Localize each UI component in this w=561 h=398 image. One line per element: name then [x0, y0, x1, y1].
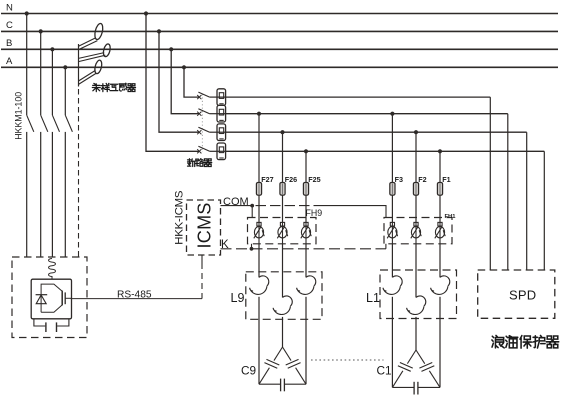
- wire N drop lower: [26, 132, 28, 257]
- branch wire upper: [282, 132, 284, 182]
- reactor wire: [258, 270, 260, 277]
- wire down to SPD: [526, 132, 528, 270]
- wire down to SPD: [507, 114, 509, 270]
- CT T2 secondary pair: [79, 53, 105, 59]
- svg-text:C9: C9: [241, 364, 256, 378]
- svg-text:F1: F1: [442, 175, 450, 184]
- svg-text:SPD: SPD: [509, 287, 536, 302]
- fuse F2: [413, 183, 418, 196]
- branch tap node: [438, 149, 442, 153]
- breaker pole 2 stub wire: [210, 113, 217, 115]
- wire below fuse F27: [258, 195, 260, 222]
- wire below fuse F3: [391, 195, 393, 222]
- breaker pole 3 contact X: [197, 130, 201, 134]
- branch wire to reactor: [258, 244, 260, 270]
- reactor wire: [391, 270, 393, 277]
- capacitor leg wire: [416, 350, 425, 364]
- wire B drop upper: [51, 49, 53, 115]
- breaker pole 1 body: [217, 89, 226, 106]
- wire through contactor: [415, 222, 417, 244]
- wire through contactor: [258, 222, 260, 244]
- controller bottom stub: [201, 255, 203, 263]
- K node: [250, 247, 254, 251]
- breaker pole 1 wire through: [217, 96, 226, 98]
- branch wire to reactor: [282, 244, 284, 270]
- breaker pole 4 contact X: [197, 149, 201, 153]
- svg-text:HKK-ICMS: HKK-ICMS: [174, 190, 186, 245]
- breaker pole 1 blade: [198, 92, 209, 97]
- wire N drop upper: [26, 14, 28, 116]
- sampling signal dashed wire: [78, 89, 80, 257]
- CT T3 toroid: [94, 59, 103, 74]
- wire down to SPD: [489, 97, 491, 270]
- wire A drop lower: [64, 132, 66, 257]
- branch wire upper: [391, 114, 393, 183]
- wire C drop upper: [40, 31, 42, 115]
- fuse F25: [303, 183, 308, 196]
- capacitor leg wire: [274, 347, 283, 361]
- branch wire to reactor: [391, 244, 393, 270]
- wire through contactor: [305, 222, 307, 244]
- capacitor plates: [286, 359, 299, 365]
- wire through contactor: [391, 222, 393, 244]
- bus tap node: [157, 29, 161, 33]
- reactor winding: [259, 276, 269, 286]
- dotted continuation C9 to C1: [311, 359, 384, 361]
- CT T1 secondary pair: [79, 38, 96, 46]
- APF module dashed box: [12, 257, 87, 338]
- svg-text:ICMS: ICMS: [195, 202, 215, 248]
- wire below fuse F1: [439, 195, 441, 222]
- capacitor leg wire: [283, 347, 292, 361]
- bus line B: [1, 48, 558, 50]
- breaker pole 3 wire through: [217, 131, 226, 133]
- contactor switch element: [301, 222, 311, 238]
- diode D1 triangle: [36, 295, 46, 304]
- bus tap node: [182, 65, 186, 69]
- wire drop to breaker: [184, 67, 199, 97]
- contactor switch element: [277, 222, 287, 238]
- IGBT body bar: [61, 291, 63, 306]
- breaker pole 1 contact X: [197, 95, 201, 99]
- inverter inner box: [31, 279, 71, 319]
- label langyong-baohuqi (surge protector): [492, 335, 504, 347]
- switch blade HKKM1-100 pole 2: [41, 115, 48, 132]
- wire through contactor: [439, 222, 441, 244]
- svg-text:HKKM1-100: HKKM1-100: [14, 92, 24, 140]
- COM dashed continuation: [256, 205, 321, 207]
- wire drop to breaker: [159, 31, 199, 132]
- node B tap (left feeder): [50, 47, 54, 51]
- bus line N: [1, 13, 558, 15]
- fuse F27: [256, 183, 261, 196]
- DC link capacitor right bracket: [57, 319, 69, 326]
- branch wire upper: [439, 151, 441, 182]
- feeder line after breaker: [226, 150, 544, 152]
- switch blade HKKM1-100 pole 3: [52, 115, 59, 132]
- COM node: [250, 204, 254, 208]
- node C tap (left feeder): [39, 29, 43, 33]
- branch wire upper: [305, 151, 307, 182]
- svg-text:L9: L9: [231, 291, 245, 305]
- wire B drop lower: [51, 132, 53, 257]
- bus tap node: [169, 47, 173, 51]
- svg-text:F26: F26: [285, 175, 297, 184]
- branch tap node: [304, 149, 308, 153]
- controller link dashed: [201, 263, 203, 299]
- diode D1 bar: [36, 294, 48, 296]
- capacitor plates: [419, 363, 432, 369]
- reactor L9 box: [246, 272, 322, 320]
- svg-text:A: A: [6, 56, 13, 67]
- bus line C: [1, 30, 558, 32]
- breaker pole 3 stub wire: [210, 131, 217, 133]
- COM stub to FH9 box: [251, 206, 253, 218]
- svg-text:C: C: [6, 20, 13, 31]
- breaker pole 4 stub wire: [210, 150, 217, 152]
- node A tap (left feeder): [63, 65, 67, 69]
- capacitor bottom plates: [280, 379, 282, 392]
- switch blade HKKM1-100 pole 1: [27, 115, 34, 132]
- bus tap node: [144, 11, 148, 15]
- reactor wire: [415, 270, 417, 298]
- IGBT gate bar: [64, 292, 66, 304]
- K stub to FH9 box: [251, 244, 253, 249]
- wire below fuse F25: [305, 195, 307, 222]
- inductor squiggle: [49, 259, 56, 280]
- IGBT gate wire: [65, 297, 71, 299]
- branch wire upper: [258, 114, 260, 183]
- breaker pole 3 body: [217, 124, 226, 141]
- svg-text:RS-485: RS-485: [117, 290, 152, 301]
- wire down to SPD: [543, 151, 545, 270]
- DC link capacitor plates: [45, 322, 47, 332]
- capacitor leg wire: [407, 350, 416, 364]
- branch wire upper: [415, 132, 417, 182]
- svg-text:F27: F27: [261, 175, 273, 184]
- CT T2 toroid: [102, 43, 111, 57]
- wire below fuse F26: [282, 195, 284, 222]
- CT T1 toroid: [93, 23, 104, 41]
- wires to capacitor C9: [258, 297, 260, 384]
- reactor winding: [283, 296, 293, 306]
- capacitor bottom leg: [392, 386, 414, 388]
- feeder line after breaker: [226, 131, 527, 133]
- branch wire to reactor: [415, 244, 417, 270]
- breaker pole 4 blade: [198, 146, 209, 151]
- branch tap node: [280, 130, 284, 134]
- breaker pole 2 body: [217, 105, 226, 122]
- DC link capacitor left bracket: [34, 319, 45, 326]
- breaker pole 1 stub wire: [210, 96, 217, 98]
- node N tap (left feeder): [25, 11, 29, 15]
- breaker pole 3 blade: [198, 127, 209, 132]
- branch wire to reactor: [439, 244, 441, 270]
- wire below fuse F2: [415, 195, 417, 222]
- branch wire to reactor: [305, 244, 307, 270]
- wire A drop upper: [64, 67, 66, 115]
- K wire dashed: [221, 248, 387, 250]
- reactor wire: [439, 270, 441, 277]
- capacitor plates: [266, 359, 279, 365]
- wires to capacitor C1: [391, 297, 393, 388]
- reactor wire: [282, 270, 284, 298]
- wire drop to breaker: [171, 49, 199, 113]
- CT T3 secondary pair: [79, 70, 96, 81]
- svg-text:F3: F3: [395, 175, 403, 184]
- label duanluqi (circuit breaker): [188, 159, 196, 167]
- breaker pole 4 body: [217, 143, 226, 160]
- capacitor plates: [400, 363, 413, 369]
- svg-text:F2: F2: [418, 175, 426, 184]
- reactor winding: [306, 276, 316, 286]
- breaker pole 2 blade: [198, 109, 209, 114]
- feeder line after breaker: [226, 96, 490, 98]
- switch blade HKKM1-100 pole 4: [65, 115, 72, 132]
- fuse F26: [280, 183, 285, 196]
- feeder line after breaker: [226, 113, 508, 115]
- svg-text:FH9: FH9: [306, 208, 323, 218]
- K stub to FH1 box: [385, 244, 387, 249]
- fuse F1: [437, 183, 442, 196]
- controller HKK-ICMS box: [187, 200, 221, 255]
- wire C drop lower: [40, 132, 42, 257]
- contactor switch element: [387, 222, 397, 238]
- label caiyang-hugangqi (sampling transformer): [92, 83, 100, 91]
- CT secondary collection wire: [78, 44, 80, 87]
- branch tap node: [257, 112, 261, 116]
- svg-text:FH1: FH1: [445, 214, 457, 220]
- reactor L1 box: [380, 270, 457, 319]
- breaker pole 2 contact X: [197, 112, 201, 116]
- reactor winding: [392, 276, 402, 286]
- inverter loop wire: [41, 284, 62, 312]
- COM wire to FH1 box: [320, 206, 386, 218]
- contactor group FH1 box: [384, 218, 452, 244]
- branch tap node: [390, 112, 394, 116]
- wire drop to breaker: [146, 14, 199, 152]
- breaker pole 4 wire through: [217, 150, 226, 152]
- contactor group FH9 box: [248, 218, 317, 244]
- wire through contactor: [282, 222, 284, 244]
- breaker pole 2 wire through: [217, 113, 226, 115]
- reactor winding: [440, 276, 450, 286]
- reactor wire: [305, 270, 307, 277]
- RS-485 wire: [71, 298, 202, 300]
- svg-text:N: N: [6, 2, 13, 13]
- svg-text:F25: F25: [308, 175, 320, 184]
- fuse F3: [390, 183, 395, 196]
- contactor switch element: [435, 222, 445, 238]
- svg-text:B: B: [6, 38, 12, 49]
- contactor switch element: [254, 222, 264, 238]
- svg-text:C1: C1: [377, 364, 392, 378]
- contactor switch element: [411, 222, 421, 238]
- branch tap node: [414, 130, 418, 134]
- reactor winding: [416, 296, 426, 306]
- capacitor bottom plates: [413, 382, 415, 395]
- bus line A: [1, 66, 558, 68]
- COM wire solid: [221, 205, 253, 207]
- breaker linkage dotted line: [201, 94, 203, 152]
- capacitor bottom leg: [259, 383, 281, 385]
- svg-text:L1: L1: [366, 291, 380, 305]
- SPD dashed box: [478, 270, 555, 318]
